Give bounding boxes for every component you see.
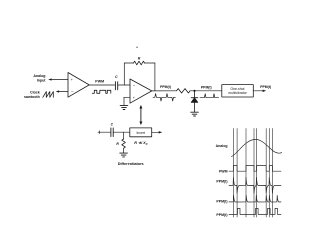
wire: feedback right vertical to output node	[154, 63, 156, 91]
svg-text:+: +	[71, 77, 74, 82]
op-amp U2 differentiator	[130, 79, 152, 103]
svg-text:−: −	[71, 89, 74, 94]
svg-text:−: −	[133, 83, 136, 88]
op-amp U1 comparator	[68, 73, 89, 98]
ground (op-amp U2 + input)	[120, 106, 128, 110]
node: PPM(t) clipped spikes row label	[216, 200, 227, 204]
svg-text:multivibrator: multivibrator	[228, 91, 247, 95]
PWM waveform glyph	[92, 90, 111, 93]
one-shot output pulse train trace	[229, 208, 281, 214]
svg-text:R ≪ XC: R ≪ XC	[134, 141, 148, 146]
node: Analog waveform label	[216, 144, 228, 148]
PPM bipolar spikes waveform glyph	[153, 94, 176, 101]
wire: sawtooth to comparator - with left arrowhead	[56, 90, 68, 92]
PPM positive spikes waveform glyph	[200, 94, 219, 98]
svg-text:PPM(t): PPM(t)	[260, 85, 271, 89]
svg-text:R: R	[116, 142, 119, 146]
wire: one-shot output with right arrowhead	[253, 90, 266, 92]
wire: resistor to ground	[123, 148, 125, 153]
resistor R (feedback) with top wires	[124, 56, 155, 65]
node: clock sawtooth label	[24, 91, 40, 99]
PWM waveform trace	[229, 166, 281, 172]
node: Differentiators label	[118, 162, 144, 166]
svg-text:PPM(t): PPM(t)	[160, 85, 171, 89]
node: R much-less-than Xc condition label	[134, 141, 148, 146]
analog sine waveform	[232, 139, 282, 156]
node: PWM waveform label	[219, 169, 228, 173]
wire: feedback left vertical	[123, 63, 125, 85]
svg-text:Differentiators: Differentiators	[118, 162, 144, 166]
svg-text:C: C	[115, 75, 118, 79]
resistor (series, at clipper)	[177, 89, 191, 93]
node: PPM(t) output label	[260, 85, 271, 89]
svg-text:sawtooth: sawtooth	[24, 95, 40, 99]
wire: comparator output to capacitor	[89, 84, 114, 86]
wire: capacitor to invert box with resistor tap	[113, 132, 130, 139]
svg-text:Input: Input	[37, 78, 47, 82]
wire: op-amp U2 noninverting stub to ground	[124, 97, 130, 105]
node: PWM label	[95, 79, 104, 83]
one-shot multivibrator block	[222, 85, 254, 97]
node: PPM(t) output pulses row label	[216, 213, 227, 217]
differentiated PPM waveform trace	[229, 177, 281, 193]
svg-text:+: +	[133, 96, 136, 100]
sawtooth waveform glyph	[43, 92, 54, 98]
capacitor C (RC differentiator)	[111, 123, 114, 137]
node: stray mark above feedback resistor	[136, 47, 137, 48]
svg-text:C: C	[111, 123, 114, 127]
node: PPM(t) label after differentiator	[160, 85, 171, 89]
resistor R (shunt to ground)	[116, 139, 125, 148]
equivalence double arrow between differentiators	[139, 105, 142, 125]
ground (RC differentiator)	[120, 153, 128, 157]
svg-text:Invert: Invert	[136, 131, 145, 135]
svg-text:PWM: PWM	[219, 169, 228, 173]
svg-text:PWM: PWM	[95, 79, 104, 83]
diode D1 (shunt clipper to ground)	[191, 91, 198, 112]
clipped positive spikes waveform trace	[229, 195, 281, 202]
svg-text:PPM(t): PPM(t)	[201, 85, 212, 89]
timing grid vertical lines	[233, 129, 272, 218]
svg-text:PPM(t): PPM(t)	[216, 179, 227, 183]
node junction dot at diode tap	[193, 90, 195, 92]
ground (diode D1)	[191, 112, 199, 116]
node: PPM(t) label after clipper	[201, 85, 212, 89]
wire: invert output with right arrowhead	[152, 131, 163, 133]
wire: resistor to one-shot box	[190, 90, 222, 92]
capacitor C (series, value label C)	[115, 75, 118, 90]
svg-text:PPM(t): PPM(t)	[216, 200, 227, 204]
node: PPM(t) bipolar spikes row label	[216, 179, 227, 183]
svg-text:Analog: Analog	[216, 144, 228, 148]
invert block	[130, 128, 152, 137]
svg-text:R: R	[138, 56, 141, 60]
wire: capacitor to op-amp inverting input with feedback tap	[118, 84, 130, 86]
svg-text:PPM(t): PPM(t)	[216, 213, 227, 217]
wire: analog input to comparator + with left arrowhead	[48, 78, 68, 80]
wire: U2 output to series resistor	[152, 90, 177, 92]
wire: RC differentiator input	[98, 131, 111, 134]
node: analog input label	[33, 74, 46, 82]
